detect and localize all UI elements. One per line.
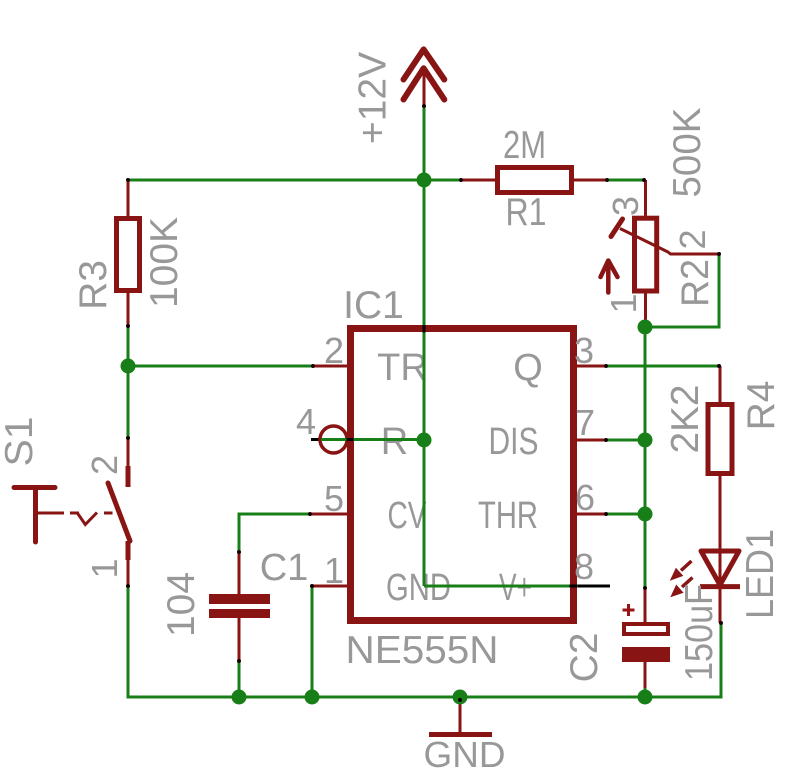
svg-text:R2: R2	[674, 259, 717, 307]
pin stub IC1 pin 5 CV	[310, 513, 347, 516]
svg-text:1: 1	[84, 558, 125, 578]
label NE555N	[346, 629, 499, 672]
svg-text:S1: S1	[0, 417, 41, 467]
svg-text:3: 3	[605, 196, 646, 216]
pin name THR	[478, 495, 538, 537]
resistor R3	[117, 180, 140, 326]
label R3	[72, 260, 115, 310]
wire C2 bottom lead	[644, 688, 647, 697]
pin name TR	[377, 347, 428, 389]
pin stub IC1 pin 8 V+	[570, 585, 610, 588]
wire C1 upper to CV	[239, 514, 310, 552]
svg-text:104: 104	[160, 572, 203, 637]
svg-text:C1: C1	[260, 547, 309, 589]
pin 1 label S1	[84, 558, 125, 578]
svg-text:3: 3	[574, 330, 594, 371]
resistor R1	[461, 168, 607, 193]
svg-text:R: R	[381, 421, 408, 463]
junction node rail C2	[638, 690, 653, 705]
svg-text:R3: R3	[72, 260, 115, 310]
wire +12V drop from supply symbol	[423, 106, 426, 180]
wire THR to node	[606, 513, 645, 516]
wire V+ overlay green on pin8	[424, 585, 578, 588]
svg-text:4: 4	[296, 401, 316, 442]
svg-text:THR: THR	[478, 495, 538, 537]
svg-text:R4: R4	[740, 381, 783, 431]
pin name V+	[499, 567, 532, 609]
svg-text:GND: GND	[424, 734, 506, 775]
label LED1	[739, 529, 782, 619]
svg-text:IC1: IC1	[343, 284, 404, 327]
supply +12V symbol	[404, 49, 445, 106]
resistor R4	[708, 366, 732, 584]
pin stub IC1 pin 4 R with bubble	[311, 426, 347, 453]
label C1	[260, 547, 309, 589]
node black crossing at IC right border	[570, 585, 578, 588]
svg-text:NE555N: NE555N	[346, 629, 499, 672]
pin number 1	[324, 550, 344, 591]
svg-text:TR: TR	[377, 347, 428, 389]
wire R1 to R2 link	[607, 179, 644, 182]
svg-text:2: 2	[84, 455, 125, 475]
label 2M	[503, 124, 546, 167]
junction node R pin	[417, 433, 432, 448]
op-amp-style IC body U1/IC1 NE555N	[351, 329, 574, 621]
svg-text:100K: 100K	[143, 217, 186, 308]
wire left rail lower segment	[127, 586, 130, 699]
pin 1 label R2	[603, 293, 644, 313]
junction node THR	[638, 507, 653, 522]
label 500K	[666, 108, 709, 198]
svg-text:2: 2	[324, 330, 344, 371]
pin number 3	[574, 330, 594, 371]
capacitor C2 polarized	[622, 588, 670, 688]
pin number 4	[296, 401, 316, 442]
label 104	[160, 572, 203, 637]
wire top rail +12V net	[128, 179, 461, 182]
label C2	[563, 633, 606, 683]
junction node TR left	[121, 359, 136, 374]
svg-text:2: 2	[672, 229, 713, 249]
wire IC pin1 drop to rail	[311, 586, 314, 697]
wire R pin net from bubble to junction	[321, 438, 424, 441]
svg-text:GND: GND	[386, 567, 451, 609]
pin name Q	[513, 347, 543, 389]
svg-text:5: 5	[324, 478, 344, 519]
node connection dots black	[126, 104, 723, 702]
pin name CV	[388, 495, 427, 537]
svg-text:2M: 2M	[503, 124, 546, 167]
wire C1 lower lead	[238, 661, 241, 697]
svg-text:DIS: DIS	[489, 421, 539, 463]
label 100K	[143, 217, 186, 308]
label 2K2	[664, 385, 707, 454]
pin stub IC1 pin 3 Q	[577, 365, 606, 368]
svg-text:Q: Q	[513, 347, 543, 389]
pin number 5	[324, 478, 344, 519]
svg-text:V+: V+	[499, 567, 532, 609]
svg-text:2K2: 2K2	[664, 385, 707, 454]
junction node rail C1	[232, 690, 247, 705]
pin number 6	[575, 477, 595, 518]
label R2	[674, 259, 717, 307]
junction node DIS	[638, 433, 653, 448]
junction node rail GND	[453, 690, 468, 705]
wire DIS to node	[606, 439, 645, 442]
label S1	[0, 417, 41, 467]
pin name R	[381, 421, 408, 463]
svg-text:150uF: 150uF	[678, 584, 721, 681]
junction node top rail	[417, 173, 432, 188]
switch S1	[14, 438, 130, 586]
label IC1	[343, 284, 404, 327]
pin stub IC1 pin 7 DIS	[577, 439, 606, 442]
wire main vertical overlay over IC	[423, 326, 426, 586]
pin number 2	[324, 330, 344, 371]
svg-text:8: 8	[574, 546, 594, 587]
LED LED1	[670, 551, 740, 623]
pin stub IC1 pin 1 GND	[313, 585, 347, 588]
capacitor C1	[209, 552, 270, 661]
wire left rail upper segment	[127, 326, 130, 438]
pin stub IC1 pin 2 TR	[313, 365, 347, 368]
wire LED bottom drop	[720, 623, 723, 699]
ground symbol GND	[429, 697, 492, 735]
node black crossing at IC left border pin4 row	[347, 438, 354, 441]
junction node R2 pin1	[638, 320, 653, 335]
pin 3 label R2	[605, 196, 646, 216]
node black crossing at IC top border	[423, 325, 426, 333]
svg-text:R1: R1	[506, 191, 547, 234]
potentiometer R2	[601, 180, 720, 322]
pin number 7	[575, 402, 595, 443]
wire main vertical +12V to V+	[423, 180, 426, 586]
label 150uF	[678, 584, 721, 681]
svg-text:C2: C2	[563, 633, 606, 683]
wire R2 pin2 loop	[645, 254, 719, 327]
pin 2 label R2	[672, 229, 713, 249]
svg-text:+12V: +12V	[352, 52, 395, 144]
label +12V	[352, 52, 395, 144]
pin name GND	[386, 567, 451, 609]
svg-text:1: 1	[324, 550, 344, 591]
wire Q output horizontal	[606, 365, 719, 368]
pin name DIS	[489, 421, 539, 463]
pin stub IC1 pin 6 THR	[577, 513, 606, 516]
svg-text:6: 6	[575, 477, 595, 518]
svg-text:LED1: LED1	[739, 529, 782, 619]
svg-text:500K: 500K	[666, 108, 709, 198]
svg-text:CV: CV	[388, 495, 427, 537]
junction node rail pin1	[305, 690, 320, 705]
svg-text:7: 7	[575, 402, 595, 443]
wire R2 vertical net	[644, 322, 647, 588]
pin number 8	[574, 546, 594, 587]
wire TR net horizontal	[128, 365, 314, 368]
label GND	[424, 734, 506, 775]
wire bottom ground rail	[127, 696, 722, 699]
wire V+ horizontal to pin 8	[424, 585, 578, 588]
label R4	[740, 381, 783, 431]
pin 2 label S1	[84, 455, 125, 475]
svg-text:1: 1	[603, 293, 644, 313]
label R1	[506, 191, 547, 234]
